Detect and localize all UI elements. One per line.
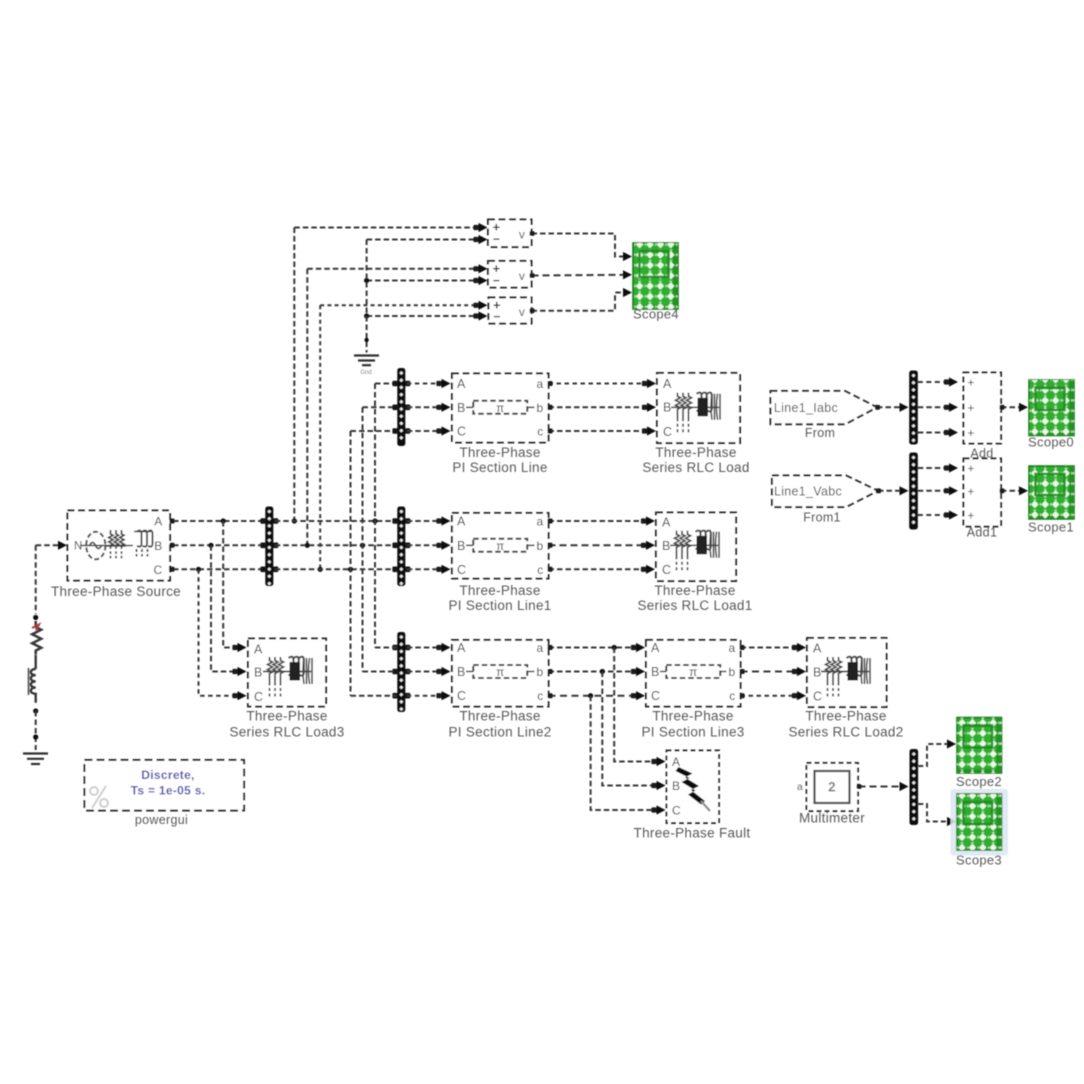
svg-text:v: v [519, 269, 525, 283]
powergui block [85, 760, 245, 811]
wire U1 output to Scope4 [532, 234, 626, 257]
svg-text:Series RLC Load3: Series RLC Load3 [229, 725, 344, 740]
wire fault input C [591, 696, 660, 810]
svg-text:A: A [672, 755, 680, 769]
svg-text:PI Section Line2: PI Section Line2 [448, 725, 551, 740]
svg-text:Three-Phase Fault: Three-Phase Fault [634, 826, 751, 841]
wire bus B2b to PI line1 input B [407, 544, 445, 546]
wire U2 output to Scope4 [532, 274, 626, 277]
svg-text:π: π [496, 667, 504, 679]
svg-text:Three-Phase: Three-Phase [459, 445, 540, 460]
svg-text:B: B [813, 666, 822, 680]
svg-text:powergui: powergui [135, 813, 188, 827]
svg-text:B: B [663, 401, 672, 415]
wire bottom row B into bus B2c [363, 671, 397, 673]
bus B2b three-phase connector middle [397, 507, 405, 587]
wire PI line1 c to load1 C [549, 568, 650, 570]
svg-text:+: + [967, 511, 974, 523]
wire bus B3 to Scope2 [918, 744, 950, 766]
wire PI line1 b to load1 B [549, 544, 650, 546]
wire U3 output to Scope4 [532, 293, 626, 311]
bus B2b ports [392, 518, 398, 524]
svg-text:b: b [537, 539, 544, 553]
wire node B bus B1 to bus B2 [275, 544, 397, 546]
wire bus B5 out3 to Add1 [918, 514, 952, 516]
wire node C source to bus B1 [173, 568, 264, 570]
svg-text:c: c [537, 425, 543, 439]
three-phase fault F1 [667, 751, 720, 824]
svg-text:c: c [537, 689, 543, 703]
svg-text:A: A [662, 516, 671, 530]
svg-text:B: B [651, 665, 660, 679]
three-phase source X1 [68, 511, 171, 581]
svg-text:From1: From1 [803, 511, 841, 525]
svg-text:π: π [496, 403, 504, 415]
wire fault input B [602, 672, 660, 786]
svg-text:Three-Phase: Three-Phase [805, 709, 886, 724]
svg-text:2: 2 [828, 780, 836, 795]
wire bus B2b to PI line1 input C [407, 568, 445, 570]
svg-text:PI Section Line1: PI Section Line1 [448, 598, 551, 613]
svg-text:π: π [689, 667, 697, 679]
wire PI line b to load B [549, 406, 651, 408]
svg-text:Add1: Add1 [967, 526, 997, 540]
wire bus B5 out2 to Add1 [918, 490, 952, 492]
multimeter M1 [807, 763, 859, 811]
junction fault tap a [612, 645, 617, 650]
svg-text:b: b [729, 665, 736, 679]
wire ground net vertical [366, 240, 368, 353]
wire node C bus B1 to bus B2 [275, 568, 397, 570]
svg-text:π: π [496, 541, 504, 553]
Scope3 selection halo [951, 789, 1009, 856]
svg-text:−: − [493, 232, 500, 246]
svg-text:Scope4: Scope4 [633, 307, 679, 322]
wire node A bus B1 to bus B2 [275, 520, 397, 522]
svg-text:c: c [537, 563, 543, 577]
svg-text:v: v [519, 228, 525, 242]
node A tap junction [292, 518, 297, 523]
wire bus B4 out3 to Add [918, 432, 952, 434]
scope Scope4 [633, 243, 678, 309]
svg-text:C: C [651, 689, 660, 703]
svg-text:Scope1: Scope1 [1028, 520, 1074, 535]
svg-text:Line1_Iabc: Line1_Iabc [774, 401, 838, 415]
svg-text:−: − [493, 274, 500, 288]
wire PI line c to load C [549, 430, 651, 432]
svg-text:a: a [729, 641, 736, 655]
wire top row A into bus B2a [375, 383, 397, 385]
svg-text:B: B [254, 666, 263, 680]
svg-text:v: v [519, 305, 525, 319]
svg-text:A: A [254, 643, 263, 657]
three-phase series RLC load Load3 [248, 639, 326, 707]
wire tap A vertical to top and bottom lines [374, 384, 376, 648]
svg-text:+: + [967, 486, 974, 498]
source icon wire [80, 545, 133, 547]
svg-text:b: b [537, 665, 544, 679]
wire top row C into bus B2a [351, 430, 397, 432]
svg-text:Three-Phase Source: Three-Phase Source [51, 584, 181, 599]
junction Load3 tap B [208, 543, 213, 548]
scope Scope3 [957, 794, 1002, 850]
wire bus B4 out2 to Add [918, 406, 952, 408]
wire bus B2c to PI line2 input B [407, 671, 445, 673]
svg-text:Three-Phase: Three-Phase [459, 709, 540, 724]
svg-text:PI Section Line3: PI Section Line3 [641, 725, 744, 740]
source icon coil group 2 [134, 530, 153, 556]
from tag From1 [772, 476, 878, 508]
svg-text:Three-Phase: Three-Phase [654, 583, 735, 598]
wire PI line2 a to line3 A [549, 647, 640, 649]
Load1 icon [670, 531, 719, 571]
junction V2 minus on ground net [364, 278, 369, 283]
svg-text:Series RLC Load2: Series RLC Load2 [788, 725, 903, 740]
svg-text:C: C [254, 690, 263, 704]
junction below inductor [33, 708, 38, 713]
svg-text:+: + [967, 464, 974, 476]
svg-text:Discrete,: Discrete, [141, 768, 194, 782]
wire bottom row A into bus B2c [375, 647, 397, 649]
wire neutral branch down [35, 545, 37, 614]
wire top row B into bus B2a [363, 406, 397, 408]
source icon sine circle [86, 532, 105, 560]
svg-text:C: C [672, 804, 681, 818]
sum block Add1 [964, 459, 1002, 527]
junction fault tap b [600, 669, 605, 674]
wire bus B5 out1 to Add1 [918, 467, 952, 469]
wire From to bus B4 [877, 406, 903, 408]
junction Load3 tap C [196, 567, 201, 572]
bus B2c ports [392, 645, 398, 651]
wire V2 plus tap from node B [306, 269, 308, 546]
svg-text:a: a [537, 641, 544, 655]
wire to ground G2 [35, 711, 37, 750]
wire bus B2a to PI line input C [407, 430, 445, 432]
wire V2 minus to ground net [367, 280, 484, 282]
three-phase series RLC load Load1 [656, 513, 736, 582]
three-phase series RLC load Load [657, 373, 740, 443]
svg-text:Multimeter: Multimeter [799, 811, 865, 826]
sum block Add [964, 373, 1002, 444]
junction on ground wire [33, 734, 38, 739]
wire bus B3 to Scope3 [918, 804, 950, 822]
bus B1 ports [260, 518, 266, 524]
three-phase PI section line TL1 [452, 374, 549, 443]
wire V1 plus tap from node A [293, 228, 295, 522]
svg-text:A: A [457, 641, 466, 655]
wire line3 b to load2 B [741, 671, 801, 673]
svg-text:b: b [537, 401, 544, 415]
scope Scope2 [957, 718, 1002, 774]
source icon coil group 1 [106, 530, 126, 558]
wire Load3 input C [199, 569, 242, 695]
node C tap junction [318, 567, 323, 572]
junction Load3 tap A [221, 518, 226, 523]
inductor L1 neutral [31, 655, 36, 703]
ground G2 [23, 754, 48, 765]
junction neutral branch [33, 615, 38, 620]
wire From1 to bus B5 [878, 490, 903, 492]
wire V1 minus to ground net [367, 239, 484, 241]
svg-text:+: + [967, 428, 974, 440]
wire multimeter output to bus B3 [859, 786, 903, 788]
bus B3 mux connector [910, 749, 919, 825]
wire line3 c to load2 C [741, 695, 801, 697]
svg-text:C: C [662, 563, 671, 577]
junction line tap B [360, 543, 365, 548]
three-phase PI section line TL3 [452, 640, 549, 707]
svg-text:Ts = 1e-05 s.: Ts = 1e-05 s. [131, 784, 206, 798]
svg-text:a: a [537, 377, 544, 391]
wire bus B2c to PI line2 input C [407, 695, 445, 697]
svg-text:PI Section Line: PI Section Line [452, 460, 547, 475]
powergui corner glyph [90, 786, 108, 808]
wire tap B vertical [362, 407, 364, 671]
wire bus B4 out1 to Add [918, 381, 952, 383]
svg-text:A: A [154, 515, 162, 529]
wire bus B2a to PI line input B [407, 406, 445, 408]
wire PI line2 b to line3 B [549, 671, 640, 673]
svg-text:a: a [537, 515, 544, 529]
wire bus B2c to PI line2 input A [407, 647, 445, 649]
voltage measurement U1 [488, 220, 532, 248]
wire Load3 input A [223, 521, 241, 648]
three-phase PI section line TL2 [452, 513, 549, 579]
Load2 icon [821, 657, 870, 697]
svg-text:B: B [672, 779, 680, 793]
svg-text:N: N [74, 541, 83, 553]
wire PI line a to load A [549, 383, 651, 385]
svg-text:Three-Phase: Three-Phase [652, 709, 733, 724]
svg-text:A: A [651, 641, 660, 655]
svg-text:Three-Phase: Three-Phase [655, 445, 736, 460]
Load3 icon [263, 657, 312, 697]
junction line tap A [372, 518, 377, 523]
bus B2a ports [392, 381, 398, 387]
svg-text:C: C [154, 563, 163, 577]
wire line3 a to load2 A [741, 647, 801, 649]
wire PI line1 a to load1 A [549, 520, 650, 522]
wire bus B2b to PI line1 input A [407, 520, 445, 522]
svg-text:+: + [967, 403, 974, 415]
three-phase series RLC load Load2 [807, 638, 887, 707]
svg-text:A: A [457, 377, 466, 391]
svg-text:c: c [729, 689, 735, 703]
wire fault input A [614, 648, 660, 762]
svg-text:B: B [662, 539, 671, 553]
bus B2c three-phase connector bottom [397, 632, 405, 712]
svg-text:Scope2: Scope2 [956, 774, 1002, 789]
svg-text:+: + [967, 378, 974, 390]
svg-text:A: A [663, 377, 672, 391]
wire Add to Scope0 [1001, 406, 1022, 408]
wire V3 plus tap from node C [319, 305, 321, 569]
wire bus B2a to PI line input A [407, 383, 445, 385]
wire Add1 to Scope1 [1001, 490, 1022, 492]
svg-text:−: − [493, 310, 500, 324]
bus B5 demux connector [909, 453, 918, 530]
wire Load3 input B [211, 545, 241, 671]
svg-text:C: C [813, 690, 822, 704]
svg-text:Scope3: Scope3 [956, 853, 1002, 868]
wire node B source to bus B1 [173, 544, 264, 546]
svg-text:C: C [663, 425, 672, 439]
svg-text:Series RLC Load1: Series RLC Load1 [637, 598, 752, 613]
three-phase PI section line TL4 [646, 640, 741, 707]
wire bottom row C into bus B2c [351, 695, 397, 697]
svg-text:B: B [457, 539, 466, 553]
bus B1 three-phase connector [265, 507, 273, 587]
svg-text:Gnd: Gnd [360, 370, 371, 376]
scope Scope0 [1029, 380, 1074, 436]
resistor R1 red mark [32, 625, 39, 631]
wire PI line2 c to line3 C [549, 695, 640, 697]
svg-text:Series RLC Load: Series RLC Load [642, 460, 749, 475]
svg-text:C: C [457, 689, 466, 703]
bus B4 demux connector [909, 371, 918, 445]
svg-text:Line1_Vabc: Line1_Vabc [774, 485, 842, 499]
junction V3 minus on ground net [364, 313, 369, 318]
junction fault tap c [588, 693, 593, 698]
scope Scope1 [1029, 466, 1074, 519]
fault lightning icon [676, 767, 706, 805]
node B tap junction [305, 543, 310, 548]
Load icon [671, 393, 720, 433]
svg-text:A: A [457, 515, 466, 529]
wire tap C vertical [350, 431, 352, 696]
svg-text:a: a [797, 781, 803, 793]
svg-text:B: B [457, 665, 466, 679]
wire node A source to bus B1 [173, 520, 264, 522]
svg-text:A: A [813, 642, 822, 656]
from tag From [771, 391, 878, 424]
wire source N input [36, 544, 64, 546]
svg-text:B: B [154, 539, 162, 553]
wire V3 minus to ground net [367, 315, 484, 317]
svg-text:Scope0: Scope0 [1028, 435, 1074, 450]
resistor R1 neutral [32, 621, 41, 655]
voltage measurement U3 [489, 298, 532, 324]
svg-text:Three-Phase: Three-Phase [246, 709, 327, 724]
bus B2a three-phase connector top [397, 368, 405, 446]
svg-text:C: C [457, 425, 466, 439]
junction line tap C [348, 567, 353, 572]
ground G1 [354, 356, 379, 366]
voltage measurement U2 [488, 261, 532, 288]
svg-text:B: B [457, 401, 466, 415]
junction on ground net [364, 338, 368, 342]
svg-text:C: C [457, 563, 466, 577]
svg-text:From: From [805, 426, 835, 440]
svg-text:Three-Phase: Three-Phase [459, 583, 540, 598]
